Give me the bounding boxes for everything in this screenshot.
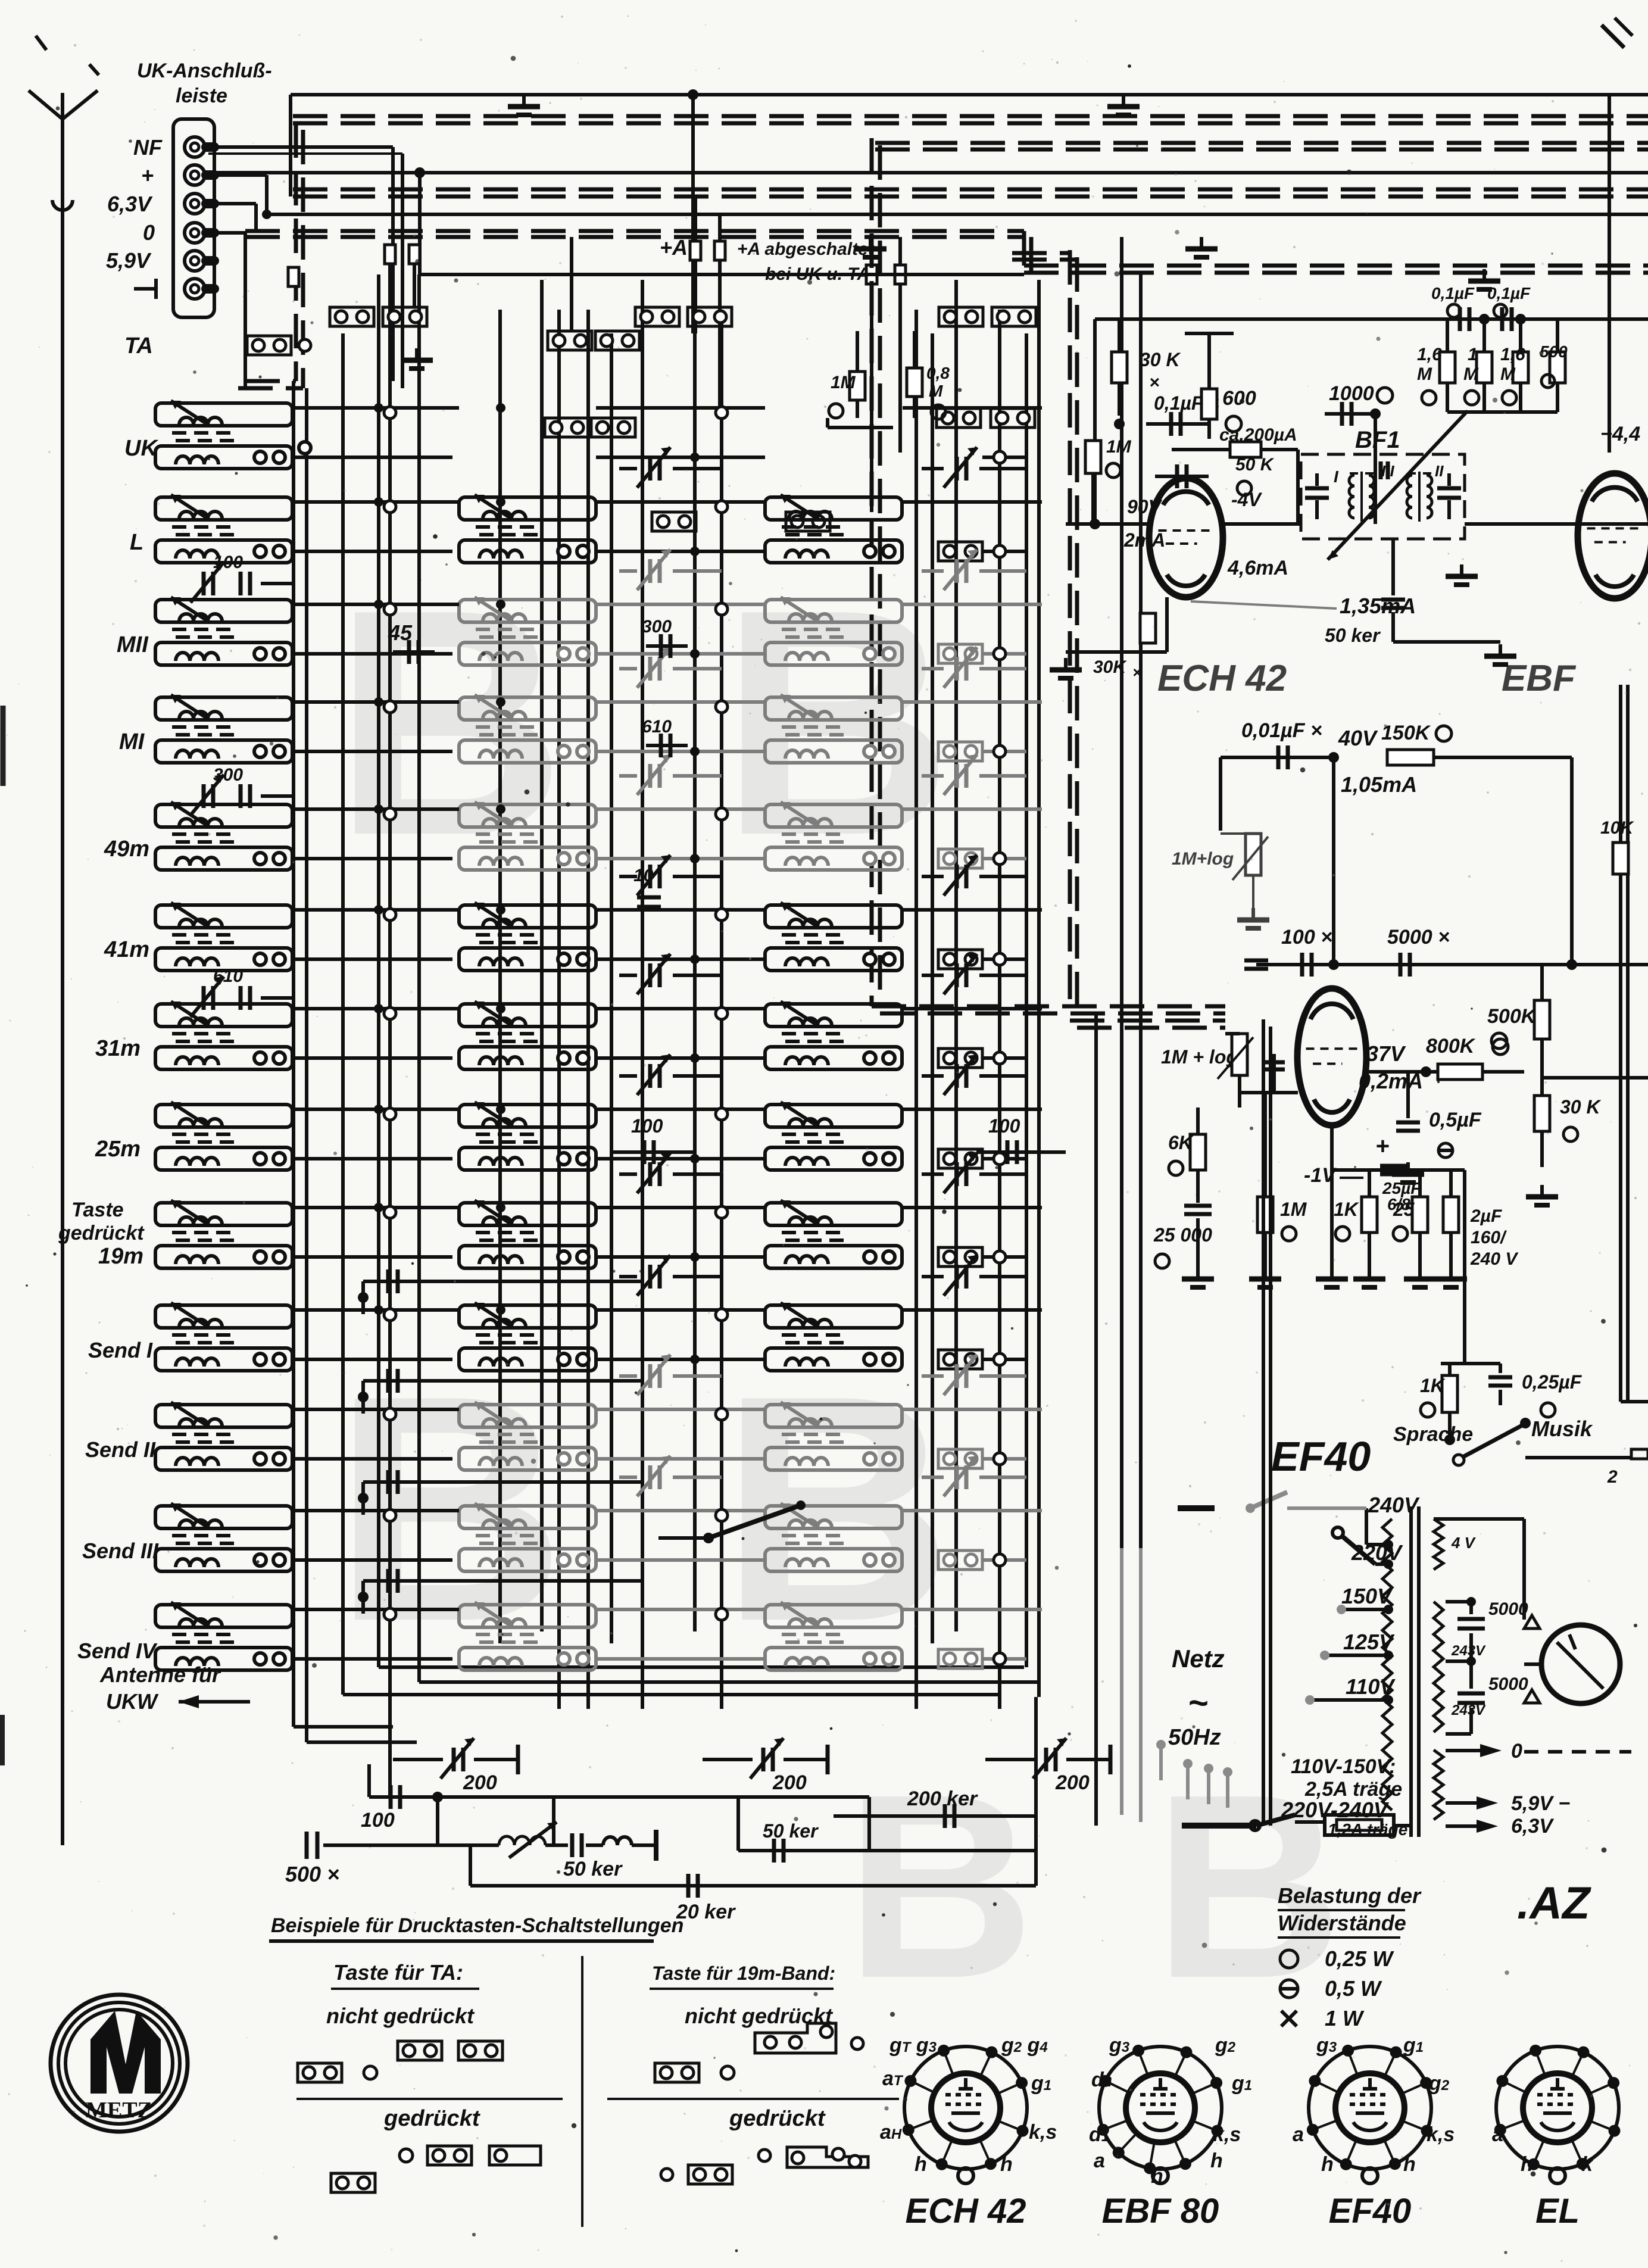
- svg-text:19m: 19m: [98, 1244, 143, 1269]
- svg-text:100: 100: [361, 1809, 395, 1832]
- svg-text:Taste für 19m-Band:: Taste für 19m-Band:: [652, 1963, 835, 1984]
- svg-text:MII: MII: [117, 632, 149, 657]
- svg-text:nicht gedrückt: nicht gedrückt: [326, 2004, 475, 2028]
- svg-text:1: 1: [1468, 345, 1478, 364]
- svg-text:5000: 5000: [1488, 1674, 1528, 1694]
- svg-text:500 ×: 500 ×: [285, 1862, 339, 1886]
- svg-text:METZ: METZ: [86, 2098, 152, 2123]
- svg-text:×: ×: [1132, 663, 1141, 681]
- svg-text:EF40: EF40: [1329, 2192, 1412, 2230]
- svg-text:0,1µF: 0,1µF: [1431, 284, 1475, 302]
- svg-text:0: 0: [1511, 1740, 1522, 1762]
- svg-text:+A: +A: [660, 235, 688, 260]
- svg-text:ECH 42: ECH 42: [1157, 658, 1287, 699]
- svg-text:5000 ×: 5000 ×: [1387, 926, 1450, 949]
- svg-text:2: 2: [1607, 1467, 1618, 1487]
- svg-text:20 ker: 20 ker: [676, 1901, 736, 1923]
- svg-text:50 ker: 50 ker: [763, 1820, 819, 1842]
- svg-text:100 ×: 100 ×: [1281, 926, 1332, 949]
- svg-text:1,05mA: 1,05mA: [1341, 772, 1417, 797]
- svg-text:I: I: [1334, 467, 1339, 486]
- svg-text:125V: 125V: [1343, 1630, 1395, 1654]
- svg-text:Send II: Send II: [85, 1437, 156, 1462]
- svg-text:gedrückt: gedrückt: [729, 2106, 826, 2131]
- svg-text:h: h: [914, 2153, 927, 2176]
- svg-text:0,01µF ×: 0,01µF ×: [1241, 719, 1322, 742]
- svg-text:UKW: UKW: [106, 1689, 159, 1714]
- svg-text:500: 500: [1540, 342, 1568, 361]
- svg-text:-1V: -1V: [1304, 1164, 1337, 1187]
- svg-text:M: M: [929, 382, 943, 400]
- svg-text:-4V: -4V: [1231, 489, 1262, 510]
- svg-text:25 000: 25 000: [1153, 1224, 1212, 1246]
- svg-text:×: ×: [1149, 373, 1160, 392]
- svg-text:EBF: EBF: [1502, 658, 1577, 699]
- svg-text:5,9V −: 5,9V −: [1511, 1792, 1570, 1815]
- svg-text:2mA: 2mA: [1123, 529, 1165, 551]
- svg-text:BF1: BF1: [1355, 427, 1400, 453]
- svg-text:200: 200: [463, 1771, 497, 1794]
- svg-text:6,3V: 6,3V: [1511, 1815, 1555, 1838]
- svg-text:25m: 25m: [95, 1137, 141, 1162]
- svg-text:UK-Anschluß-: UK-Anschluß-: [137, 60, 272, 82]
- svg-text:243V: 243V: [1451, 1643, 1486, 1659]
- svg-text:160/: 160/: [1471, 1228, 1507, 1247]
- svg-text:TA: TA: [124, 333, 153, 358]
- svg-text:1M: 1M: [1106, 437, 1132, 457]
- svg-text:610: 610: [642, 717, 672, 737]
- svg-text:100: 100: [631, 1115, 663, 1137]
- svg-text:5,9V: 5,9V: [106, 248, 152, 273]
- svg-text:6K: 6K: [1168, 1132, 1194, 1153]
- svg-text:150K: 150K: [1381, 722, 1431, 744]
- svg-text:25: 25: [1393, 1199, 1415, 1220]
- svg-text:k,s: k,s: [1427, 2123, 1455, 2146]
- svg-text:1,2A träge: 1,2A träge: [1328, 1820, 1407, 1839]
- svg-text:gedrückt: gedrückt: [58, 1222, 145, 1244]
- svg-text:Widerstände: Widerstände: [1278, 1911, 1406, 1935]
- svg-text:h: h: [1403, 2153, 1416, 2176]
- svg-text:Taste für TA:: Taste für TA:: [333, 1960, 463, 1985]
- svg-text:h: h: [1000, 2153, 1013, 2176]
- svg-text:k,s: k,s: [1029, 2121, 1057, 2144]
- svg-text:II: II: [1435, 462, 1444, 480]
- svg-text:6,3V: 6,3V: [107, 192, 153, 216]
- svg-text:150V: 150V: [1341, 1584, 1393, 1608]
- svg-text:110V: 110V: [1346, 1674, 1396, 1699]
- svg-text:a: a: [1492, 2123, 1503, 2146]
- svg-text:37V: 37V: [1366, 1041, 1406, 1066]
- svg-text:EL: EL: [1535, 2192, 1580, 2230]
- svg-text:4 V: 4 V: [1451, 1534, 1477, 1552]
- svg-text:+A abgeschaltet: +A abgeschaltet: [737, 239, 875, 259]
- svg-text:50 ker: 50 ker: [1325, 625, 1381, 646]
- svg-text:200 ker: 200 ker: [907, 1787, 978, 1810]
- svg-text:1K: 1K: [1420, 1375, 1446, 1396]
- svg-text:240V: 240V: [1368, 1493, 1420, 1517]
- svg-text:300: 300: [642, 617, 672, 637]
- svg-text:M: M: [1500, 364, 1516, 384]
- svg-text:10: 10: [633, 866, 654, 885]
- svg-text:800K: 800K: [1426, 1035, 1476, 1057]
- svg-text:31m: 31m: [95, 1036, 141, 1061]
- svg-text:240 V: 240 V: [1470, 1249, 1519, 1269]
- svg-text:Sprache: Sprache: [1393, 1423, 1473, 1446]
- svg-text:.AZ: .AZ: [1517, 1878, 1591, 1929]
- svg-text:2µF: 2µF: [1470, 1206, 1502, 1226]
- svg-text:1,6: 1,6: [1500, 345, 1525, 364]
- svg-text:500K: 500K: [1487, 1005, 1537, 1028]
- svg-text:50 ker: 50 ker: [563, 1858, 623, 1880]
- svg-text:gedrückt: gedrückt: [383, 2106, 480, 2131]
- svg-text:~: ~: [1188, 1684, 1208, 1723]
- svg-text:UK: UK: [124, 436, 158, 461]
- svg-text:Belastung der: Belastung der: [1278, 1883, 1422, 1908]
- svg-text:4,6mA: 4,6mA: [1227, 557, 1288, 579]
- svg-text:h: h: [1210, 2150, 1223, 2172]
- svg-text:600: 600: [1222, 387, 1256, 410]
- svg-text:50Hz: 50Hz: [1168, 1725, 1221, 1750]
- svg-text:M: M: [1463, 364, 1479, 384]
- svg-text:5000: 5000: [1488, 1599, 1528, 1619]
- svg-text:+: +: [141, 163, 154, 188]
- svg-text:0,25 W: 0,25 W: [1325, 1946, 1394, 1971]
- svg-text:0,1µF: 0,1µF: [1487, 284, 1531, 302]
- svg-text:49m: 49m: [104, 837, 149, 862]
- svg-text:1000: 1000: [1329, 382, 1374, 405]
- svg-text:200: 200: [1055, 1771, 1090, 1794]
- svg-text:M: M: [1417, 364, 1432, 384]
- svg-text:k,s: k,s: [1213, 2123, 1241, 2146]
- svg-text:Musik: Musik: [1531, 1417, 1593, 1441]
- svg-text:1M + log: 1M + log: [1161, 1046, 1238, 1068]
- svg-text:41m: 41m: [104, 937, 149, 962]
- svg-text:+: +: [1375, 1133, 1389, 1159]
- svg-text:0,25µF: 0,25µF: [1522, 1371, 1583, 1393]
- svg-text:NF: NF: [133, 135, 163, 160]
- svg-text:Netz: Netz: [1172, 1645, 1225, 1673]
- svg-text:1 W: 1 W: [1325, 2006, 1365, 2030]
- svg-text:Taste: Taste: [71, 1199, 124, 1221]
- svg-text:200: 200: [772, 1771, 807, 1794]
- svg-text:30K: 30K: [1093, 657, 1127, 677]
- svg-text:Antenne für: Antenne für: [99, 1662, 221, 1687]
- svg-text:1,6: 1,6: [1417, 345, 1442, 364]
- svg-text:MI: MI: [119, 729, 145, 754]
- svg-text:0: 0: [143, 220, 155, 245]
- svg-text:30 K: 30 K: [1560, 1096, 1602, 1118]
- svg-text:leiste: leiste: [176, 85, 227, 107]
- svg-text:0,5µF: 0,5µF: [1429, 1109, 1482, 1131]
- svg-text:0,5 W: 0,5 W: [1325, 1976, 1382, 2001]
- svg-text:h: h: [1321, 2153, 1334, 2176]
- svg-text:40V: 40V: [1338, 726, 1378, 750]
- svg-text:k: k: [1581, 2153, 1594, 2176]
- svg-text:EBF 80: EBF 80: [1102, 2192, 1219, 2230]
- svg-text:1K: 1K: [1334, 1199, 1360, 1220]
- svg-text:30 K: 30 K: [1140, 349, 1181, 370]
- svg-text:10K: 10K: [1600, 818, 1634, 838]
- svg-text:Beispiele für Drucktasten-Scha: Beispiele für Drucktasten-Schaltstellung…: [271, 1914, 683, 1937]
- svg-text:1M: 1M: [1280, 1199, 1307, 1220]
- svg-text:h: h: [1151, 2165, 1163, 2188]
- svg-text:ECH 42: ECH 42: [905, 2192, 1026, 2230]
- svg-text:220V-240V: 220V-240V: [1281, 1798, 1390, 1822]
- svg-text:EF40: EF40: [1271, 1433, 1371, 1480]
- svg-text:a: a: [1094, 2150, 1105, 2172]
- svg-text:110V-150V:: 110V-150V:: [1291, 1755, 1396, 1778]
- svg-text:Send IV: Send IV: [77, 1639, 158, 1663]
- svg-text:a: a: [1293, 2123, 1304, 2146]
- svg-text:0,8: 0,8: [926, 364, 950, 382]
- svg-text:L: L: [130, 530, 143, 555]
- svg-text:−4,4: −4,4: [1600, 423, 1640, 445]
- svg-text:1M+log: 1M+log: [1172, 849, 1234, 869]
- svg-text:Send III: Send III: [82, 1539, 159, 1563]
- svg-text:100: 100: [988, 1115, 1020, 1137]
- svg-text:1M: 1M: [831, 373, 856, 392]
- svg-text:50 K: 50 K: [1235, 455, 1275, 475]
- svg-text:Send I: Send I: [88, 1338, 153, 1362]
